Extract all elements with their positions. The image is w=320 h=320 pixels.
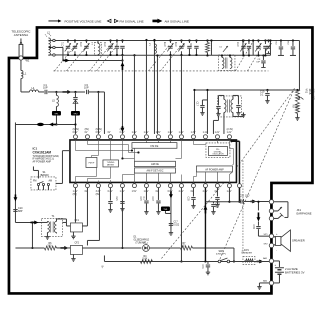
svg-text:(9V): (9V)	[85, 129, 90, 131]
legend positive voltage line	[48, 20, 59, 22]
am section frame 2	[252, 40, 254, 55]
svg-text:68P: 68P	[18, 210, 23, 213]
coil L2 with taps	[48, 38, 50, 56]
svg-text:AM FE: AM FE	[151, 162, 159, 166]
IC1 internal wiring	[74, 140, 76, 151]
IC1 block PLL digital oscillator	[206, 143, 230, 158]
wire L2 tap2 route	[55, 46, 63, 48]
svg-text:C34: C34	[252, 224, 254, 229]
capacitor C19	[266, 90, 268, 93]
capacitor C14	[292, 39, 294, 41]
svg-text:EARPHONE: EARPHONE	[296, 211, 311, 215]
IC1 block FM FE	[132, 143, 177, 149]
wire	[89, 91, 99, 93]
svg-text:AM IF DET AGC: AM IF DET AGC	[147, 170, 164, 173]
svg-text:VR1: VR1	[304, 88, 307, 93]
wire pin1 down	[74, 188, 76, 223]
capacitor C31	[207, 261, 209, 264]
resistor R6 and filter CF2 row	[15, 247, 44, 249]
trimmer CT7	[242, 39, 244, 41]
svg-text:METER: METER	[107, 164, 115, 166]
wire t1 cf1 top	[62, 221, 66, 223]
capacitor C3	[86, 90, 88, 94]
IC1 block AF POWER AMP	[196, 166, 232, 172]
svg-text:1.2V: 1.2V	[215, 132, 220, 134]
capacitor C1	[44, 90, 46, 94]
svg-text:0.5V: 0.5V	[96, 132, 101, 134]
wire	[153, 40, 155, 134]
svg-text:OSCILLATOR: OSCILLATOR	[212, 153, 224, 156]
gang diagonal 5	[148, 45, 169, 71]
audio line	[228, 188, 230, 202]
wire	[145, 40, 147, 134]
svg-text:1.3V: 1.3V	[179, 132, 184, 134]
wire	[38, 91, 44, 93]
am line	[63, 59, 122, 61]
wire	[56, 123, 75, 125]
legend fm signal line	[107, 19, 111, 22]
capacitor C6	[121, 39, 123, 41]
speaker SP	[274, 236, 276, 237]
wire	[180, 55, 182, 134]
svg-text:(9.4V): (9.4V)	[73, 129, 79, 131]
top supply bus	[55, 39, 299, 41]
svg-text:1.3V: 1.3V	[168, 132, 173, 134]
wire	[98, 91, 104, 93]
trimmer CT3	[85, 39, 87, 41]
wire ba2 gnd	[259, 282, 269, 284]
svg-text:0V: 0V	[85, 132, 88, 134]
svg-text:CT3: CT3	[104, 41, 107, 46]
gang diagonal 1	[54, 45, 75, 71]
wire rail link	[31, 222, 33, 248]
wire cf2 up	[86, 240, 88, 245]
svg-text:DIP: DIP	[256, 61, 260, 63]
jack terminal J3	[269, 216, 273, 220]
svg-text:(2.4V): (2.4V)	[227, 129, 233, 131]
am signal arrow on antenna line	[62, 91, 68, 93]
wire	[217, 116, 219, 120]
capacitor C11	[248, 39, 250, 41]
wire right feed	[298, 40, 300, 89]
IC1 block AM FE	[134, 161, 175, 166]
led D1	[121, 247, 141, 249]
svg-text:C33: C33	[239, 194, 244, 197]
wire afc loop	[194, 89, 267, 91]
dial cord diagonal B	[218, 88, 294, 262]
dashed boundary	[242, 160, 244, 253]
svg-text:ANTENNA: ANTENNA	[14, 33, 28, 37]
svg-text:CF2: CF2	[74, 241, 79, 244]
svg-text:FM SIGNAL LINE: FM SIGNAL LINE	[119, 19, 143, 23]
svg-text:1.3V: 1.3V	[156, 132, 161, 134]
wire antenna to L1	[20, 60, 22, 70]
dial cord diagonal A	[161, 88, 294, 258]
svg-text:-: -	[276, 249, 277, 252]
wire fm rail stub	[121, 55, 123, 61]
svg-text:CXA1611AM: CXA1611AM	[32, 150, 51, 154]
capacitor C24	[216, 188, 218, 197]
wire	[296, 113, 298, 115]
trimmer CT5	[169, 39, 171, 41]
wire	[267, 89, 299, 91]
gang diagonal 6	[160, 45, 181, 71]
test point TP2	[74, 103, 76, 111]
svg-text:1.1V: 1.1V	[203, 132, 208, 134]
capacitor C5	[116, 39, 118, 41]
wire	[156, 55, 158, 134]
svg-text:C21: C21	[115, 196, 117, 201]
capacitor C9 below rail	[262, 54, 264, 56]
am section frame	[210, 40, 212, 55]
trimmer CT1	[67, 39, 69, 41]
wire left rail	[14, 122, 16, 222]
svg-text:1.3V: 1.3V	[132, 132, 137, 134]
svg-text:FM IF: FM IF	[89, 162, 95, 164]
capacitor C34	[256, 226, 260, 228]
svg-text:0.022: 0.022	[173, 224, 179, 226]
wire y124 line	[15, 123, 56, 125]
svg-text:SW1: SW1	[218, 250, 224, 253]
thermistor TH1	[161, 206, 170, 211]
coil L5b	[154, 44, 156, 54]
svg-text:10U: 10U	[245, 194, 250, 197]
am det line	[170, 188, 172, 229]
svg-text:CT6: CT6	[175, 41, 178, 46]
svg-text:BATTERIES 3V: BATTERIES 3V	[285, 271, 305, 275]
IC1 top pins	[73, 135, 77, 139]
battery terminal BA1	[269, 259, 273, 263]
trimmer CT8	[257, 39, 259, 41]
capacitor C17	[201, 100, 203, 105]
ferrite bead FB1	[37, 123, 44, 126]
gang diagonal 4	[96, 45, 117, 71]
svg-text:CT5: CT5	[164, 41, 167, 46]
capacitor C13	[280, 39, 282, 41]
svg-text:(ON/OFF): (ON/OFF)	[216, 254, 226, 256]
svg-text:JK1: JK1	[296, 208, 301, 212]
svg-text:CT2: CT2	[80, 41, 83, 46]
svg-text:150: 150	[294, 104, 297, 109]
wire	[97, 92, 99, 134]
svg-text:C18: C18	[151, 196, 153, 201]
svg-text:1.2V: 1.2V	[227, 132, 232, 134]
border frame (PCB outline)	[9, 27, 313, 293]
svg-text:POSITIVE VOLTAGE LINE: POSITIVE VOLTAGE LINE	[64, 19, 101, 23]
fm lower rail	[68, 54, 271, 56]
trimmer CT6	[180, 39, 182, 41]
wire L1 down to AM line	[20, 78, 22, 92]
svg-text:FM: FM	[33, 179, 36, 182]
capacitor C15	[145, 188, 147, 200]
wire speaker feed	[257, 202, 259, 211]
wire pin5 rail	[121, 188, 123, 248]
test point TP1	[55, 106, 57, 111]
svg-text:(BAND): (BAND)	[40, 173, 49, 177]
svg-text:C30: C30	[186, 196, 188, 201]
telescopic antenna rod	[20, 38, 22, 44]
capacitor C12	[264, 39, 266, 41]
trimmer CT2	[74, 39, 76, 41]
gang diagonal to CT8	[247, 47, 261, 70]
svg-text:0.3V: 0.3V	[120, 132, 125, 134]
battery B1	[274, 260, 280, 262]
svg-text:1.3V: 1.3V	[144, 132, 149, 134]
gang diagonal to CT7	[235, 42, 252, 70]
svg-text:AM: AM	[48, 179, 52, 182]
svg-text:W1: W1	[25, 58, 29, 62]
svg-text:10P: 10P	[43, 86, 48, 90]
svg-text:C31: C31	[201, 264, 203, 269]
svg-text:CT4: CT4	[237, 41, 240, 46]
main bottom rail	[104, 260, 269, 262]
svg-text:(VOLUME): (VOLUME)	[311, 88, 314, 100]
wire	[56, 91, 85, 93]
antenna terminal W1	[19, 56, 23, 60]
svg-text:(3V): (3V)	[120, 129, 125, 131]
coil L3	[94, 42, 101, 55]
capacitor C2	[74, 92, 76, 97]
svg-text:(9V): (9V)	[73, 194, 78, 196]
IC1 block FM IF	[86, 157, 97, 167]
capacitor C21	[121, 188, 123, 201]
capacitor C23	[205, 201, 229, 203]
volume pot VR1	[295, 90, 299, 102]
speaker terminal SP1	[269, 234, 273, 238]
svg-text:FM FE: FM FE	[151, 144, 159, 148]
coil L1	[21, 70, 23, 78]
svg-text:(9.4V): (9.4V)	[96, 129, 102, 131]
am arrow on 124 line	[51, 123, 56, 125]
trimmer CT9	[267, 39, 269, 41]
svg-text:10P: 10P	[84, 86, 89, 90]
IC1 bottom pins	[73, 184, 77, 188]
wire pin10 long	[180, 188, 182, 262]
capacitor C10	[13, 209, 17, 211]
tuning gang dashed line	[53, 70, 268, 72]
svg-text:0.6V: 0.6V	[73, 132, 78, 134]
jack terminal J1	[269, 200, 273, 204]
wire L2 tap3 to rail	[55, 54, 68, 56]
wire rail drop	[133, 55, 135, 134]
legend am signal line	[152, 19, 162, 24]
am vertical to IC pin 6	[121, 60, 123, 134]
resistor R9	[295, 102, 299, 113]
am signal arrow	[62, 59, 66, 61]
capacitor C16	[217, 104, 219, 105]
if transformer T2	[217, 96, 241, 117]
wire band switch	[32, 166, 34, 170]
svg-text:1.3V: 1.3V	[191, 132, 196, 134]
IC1 block tuning meter	[103, 160, 119, 167]
audio bold line	[230, 140, 232, 142]
svg-text:10KB: 10KB	[308, 88, 311, 94]
wire	[103, 92, 105, 134]
wire ic left	[62, 150, 69, 152]
wire	[232, 95, 234, 99]
capacitor C7	[188, 39, 190, 41]
svg-text:1.5V: 1.5V	[132, 191, 137, 193]
battery terminal BA2	[269, 281, 273, 285]
am bar antenna T3	[218, 55, 235, 70]
IC1 block AM IF DET AGC	[134, 168, 175, 173]
svg-text:SPEAKER: SPEAKER	[292, 239, 305, 243]
coil L4	[29, 90, 38, 92]
svg-text:C15: C15	[139, 196, 141, 201]
gang diagonal 2	[66, 45, 87, 71]
wire t2 top	[223, 95, 225, 99]
coil L5	[55, 92, 57, 96]
capacitor C30	[192, 188, 194, 197]
svg-text:CT1: CT1	[62, 41, 65, 46]
resistor R3	[206, 39, 208, 41]
svg-text:AF POWER AMP: AF POWER AMP	[205, 168, 224, 171]
svg-text:C17: C17	[195, 101, 198, 106]
svg-text:3.4V: 3.4V	[96, 191, 101, 193]
capacitor C8	[195, 39, 197, 41]
earphone jack JK1	[274, 201, 288, 203]
svg-text:0V: 0V	[108, 132, 111, 134]
wire	[48, 91, 56, 93]
svg-text:AF POWER AMP: AF POWER AMP	[32, 160, 51, 163]
am bold line	[204, 188, 206, 262]
trimmer CT4	[109, 39, 111, 41]
wire pin4 down	[109, 188, 111, 201]
svg-text:C17: C17	[173, 221, 178, 223]
speaker terminal SP2	[269, 243, 273, 247]
gang diagonal 3	[89, 45, 110, 71]
svg-text:CF1: CF1	[74, 219, 79, 222]
wire	[169, 55, 171, 134]
op-amp IC1 body	[70, 140, 237, 183]
capacitor C16b	[157, 188, 159, 200]
svg-text:AM SIGNAL LINE: AM SIGNAL LINE	[164, 19, 188, 23]
jack terminal J2	[269, 209, 273, 213]
